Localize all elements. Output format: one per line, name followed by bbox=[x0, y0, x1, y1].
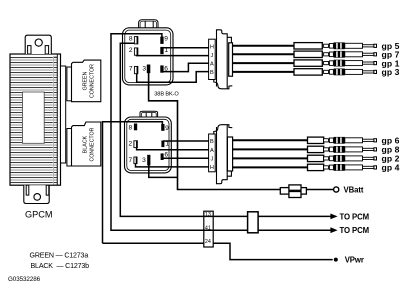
wire: upper pin 1 to H bbox=[163, 47, 209, 49]
svg-text:8: 8 bbox=[128, 125, 132, 132]
glow plug gp 5 bbox=[324, 42, 377, 49]
glow plug gp 7 bbox=[324, 51, 377, 58]
wire: upper pin 2 to J bbox=[137, 52, 210, 56]
svg-text:13: 13 bbox=[205, 212, 211, 218]
wire: PCM pin 24 feed line bbox=[103, 242, 204, 244]
svg-text:TO PCM: TO PCM bbox=[340, 226, 370, 235]
svg-text:H: H bbox=[210, 165, 214, 171]
svg-text:VPwr: VPwr bbox=[345, 256, 364, 265]
wire to glow plug gp 3 bbox=[233, 71, 297, 73]
green connector body bbox=[72, 60, 101, 102]
inline connector, gp 8 circuit bbox=[308, 146, 324, 152]
wire: upper pin 8 to junction, down to PCM pin 13 (TO PCM) bbox=[120, 43, 330, 216]
svg-text:A: A bbox=[210, 148, 214, 154]
svg-text:GREEN: GREEN bbox=[82, 71, 88, 90]
pin 9 bbox=[161, 124, 164, 131]
svg-text:1: 1 bbox=[164, 47, 168, 54]
svg-text:6: 6 bbox=[164, 151, 168, 158]
glow plug gp 4 bbox=[324, 164, 377, 171]
GPCM module heat-sink body bbox=[10, 54, 61, 185]
svg-text:9: 9 bbox=[164, 36, 168, 43]
inline connector, gp 7 circuit bbox=[294, 51, 322, 57]
glow plug harness connector (lower) B A J H bbox=[214, 125, 233, 184]
inline connector, gp 5 circuit bbox=[294, 43, 322, 49]
svg-text:CONNECTOR: CONNECTOR bbox=[89, 127, 95, 161]
wire: upper pin 3 (38B BK-O) to VBatt bbox=[149, 70, 334, 190]
wire: junction branch to lower pin 9 and to PCM pin 24 bbox=[103, 122, 163, 244]
black connector body bbox=[72, 122, 101, 166]
glow plug gp 2 bbox=[324, 155, 377, 162]
svg-text:GPCM: GPCM bbox=[25, 209, 53, 219]
wire to glow plug gp 2 bbox=[233, 157, 310, 159]
pin 1 bbox=[160, 47, 163, 54]
wire: lower pin 6 to J bbox=[163, 157, 210, 159]
arrow TO PCM (pin 13 circuit) bbox=[330, 214, 337, 220]
fusible link on VBatt feed bbox=[280, 185, 306, 198]
glow plug gp 6 bbox=[324, 137, 377, 144]
svg-text:gp 4: gp 4 bbox=[382, 163, 400, 173]
glow plug gp 1 bbox=[324, 60, 377, 67]
svg-text:J: J bbox=[211, 53, 214, 59]
svg-text:TO PCM: TO PCM bbox=[340, 212, 370, 221]
svg-text:gp 3: gp 3 bbox=[382, 67, 400, 77]
wire: upper pin 9 to PCM connector pin 41 (TO PCM) bbox=[111, 34, 331, 231]
pin 3 bbox=[147, 155, 150, 166]
wire to glow plug gp 4 bbox=[233, 166, 310, 168]
glow plug harness connector (upper) H J A B bbox=[214, 30, 233, 89]
svg-text:24: 24 bbox=[205, 239, 211, 245]
svg-text:BLACK: BLACK bbox=[82, 135, 88, 153]
svg-text:B: B bbox=[210, 139, 214, 145]
arrow TO PCM (pin 41 circuit) bbox=[330, 227, 337, 233]
VBatt terminal bbox=[334, 187, 339, 192]
wire to glow plug gp 7 bbox=[233, 53, 297, 55]
inline connector, gp 6 circuit bbox=[308, 137, 324, 143]
glow plug gp 8 bbox=[324, 146, 377, 153]
GPCM bottom mounting tab bbox=[24, 185, 49, 203]
pin 6 bbox=[161, 153, 164, 160]
wire: lower pin 2 to A bbox=[137, 146, 209, 150]
wire to glow plug gp 5 bbox=[233, 45, 297, 47]
pin 9 bbox=[160, 37, 163, 44]
pin 6 bbox=[160, 65, 163, 72]
pin 3 bbox=[147, 65, 151, 74]
wire to glow plug gp 6 bbox=[233, 139, 310, 141]
inline connector, gp 1 circuit bbox=[294, 60, 322, 66]
svg-text:A: A bbox=[210, 62, 214, 68]
svg-text:9: 9 bbox=[165, 125, 169, 132]
pin 8 bbox=[134, 124, 137, 131]
wire: lower pin 1 to B bbox=[163, 140, 209, 142]
wire: upper pin 7 to B bbox=[137, 72, 209, 83]
GPCM top mounting tab bbox=[25, 35, 51, 54]
svg-text:2: 2 bbox=[129, 47, 133, 54]
wire: lower pin 3 branch to VBatt line bbox=[149, 163, 178, 177]
inline connector, gp 2 circuit bbox=[308, 155, 324, 161]
svg-text:VBatt: VBatt bbox=[344, 186, 364, 195]
wire: upper pin 6 to A bbox=[162, 63, 209, 71]
pin 2 bbox=[134, 48, 137, 55]
inline connector, gp 3 circuit bbox=[294, 69, 322, 75]
upper harness pin block H J A B bbox=[209, 39, 216, 79]
GPCM centre window bbox=[23, 92, 45, 143]
wire to glow plug gp 8 bbox=[233, 148, 310, 150]
svg-text:1: 1 bbox=[165, 140, 169, 147]
connector mounting plate bbox=[61, 66, 66, 163]
svg-text:41: 41 bbox=[205, 226, 211, 232]
GPCM body outline bbox=[10, 54, 61, 185]
svg-text:B: B bbox=[210, 70, 214, 76]
VPwr terminal bbox=[334, 258, 338, 262]
wire: lower pin 7 to H bbox=[136, 161, 210, 167]
pin 8 bbox=[134, 37, 137, 44]
svg-text:CONNECTOR: CONNECTOR bbox=[89, 64, 95, 98]
pin 7 bbox=[134, 66, 137, 73]
svg-text:2: 2 bbox=[128, 140, 132, 147]
glow plug gp 3 bbox=[324, 69, 377, 76]
svg-text:GREEN — C1273a: GREEN — C1273a bbox=[30, 252, 89, 260]
pin 1 bbox=[161, 141, 164, 148]
svg-text:6: 6 bbox=[164, 65, 168, 72]
svg-text:7: 7 bbox=[129, 65, 133, 72]
svg-text:G03532286: G03532286 bbox=[8, 276, 41, 283]
black connector shell (left rib) bbox=[67, 129, 72, 167]
green connector shell (left rib) bbox=[67, 67, 72, 101]
wire to glow plug gp 1 bbox=[233, 62, 297, 64]
pin 7 bbox=[134, 157, 137, 164]
pin 2 bbox=[134, 141, 137, 148]
lower harness pin block B A J H bbox=[209, 134, 216, 172]
svg-text:J: J bbox=[211, 157, 214, 163]
svg-text:38B BK-O: 38B BK-O bbox=[154, 91, 179, 97]
wire: VPwr from PCM pin 24 bbox=[213, 243, 333, 259]
svg-text:BLACK — C1273b: BLACK — C1273b bbox=[31, 262, 90, 270]
svg-text:8: 8 bbox=[129, 36, 133, 43]
svg-text:3: 3 bbox=[142, 65, 146, 72]
svg-text:H: H bbox=[210, 45, 214, 51]
svg-text:3: 3 bbox=[142, 157, 146, 164]
connector C1273b outline (lower) bbox=[125, 111, 172, 173]
inline connector, gp 4 circuit bbox=[308, 164, 324, 170]
svg-text:7: 7 bbox=[128, 157, 132, 164]
PCM connector block pins 13 / 41 / 24 bbox=[204, 211, 213, 247]
connector C1273a outline (upper) bbox=[123, 20, 174, 85]
